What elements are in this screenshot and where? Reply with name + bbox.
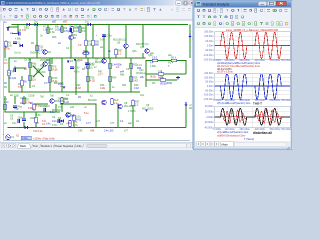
transistor Q11b xyxy=(145,49,150,54)
wire xyxy=(21,76,23,80)
svg-text:9.9p: 9.9p xyxy=(100,39,105,42)
transistor arrow QW xyxy=(145,110,148,113)
wire xyxy=(92,25,94,41)
wire xyxy=(8,58,10,70)
page border xyxy=(4,22,191,141)
svg-text:1m: 1m xyxy=(4,62,7,65)
transistor Q4 xyxy=(50,99,65,104)
capacitor C7 xyxy=(70,25,80,31)
capacitor C3 xyxy=(18,29,22,35)
svg-text:470n: 470n xyxy=(74,71,80,74)
wire left loop xyxy=(145,61,147,88)
junction xyxy=(109,57,110,58)
svg-text:560.000u: 560.000u xyxy=(270,59,281,62)
resistor R22 xyxy=(49,77,58,83)
svg-text:Power Supplies: Power Supplies xyxy=(55,144,74,148)
junction mid rail xyxy=(135,57,136,58)
svg-text:4.70u: 4.70u xyxy=(4,48,11,51)
wire xyxy=(69,127,71,128)
wire xyxy=(75,60,77,95)
svg-text:a44: a44 xyxy=(70,106,75,109)
wire xyxy=(49,58,51,92)
resistor R0T xyxy=(132,100,140,106)
resistor R2b xyxy=(4,104,6,110)
wire xyxy=(158,60,171,62)
svg-text:-80.00m: -80.00m xyxy=(205,89,214,92)
junction xyxy=(75,72,76,73)
svg-text:1.88u: 1.88u xyxy=(150,65,157,68)
junction x37 xyxy=(36,43,37,44)
wire xyxy=(23,96,25,104)
transistor Q5 xyxy=(102,100,107,105)
svg-text:1.1k: 1.1k xyxy=(39,48,44,51)
diode E3b xyxy=(67,61,70,64)
junction top rail xyxy=(30,24,31,25)
svg-text:+88: +88 xyxy=(90,130,95,133)
wire drop xyxy=(79,25,81,34)
capacitor C6 xyxy=(44,105,48,111)
resistor R23 xyxy=(87,63,95,69)
svg-text:0.000u: 0.000u xyxy=(206,116,214,119)
wire xyxy=(177,60,186,62)
svg-text:(PinBou): (PinBou) xyxy=(136,72,146,75)
diode D4 xyxy=(87,23,90,26)
capacitor C2 xyxy=(14,65,17,71)
junction top rail xyxy=(85,24,86,25)
wire xyxy=(117,104,119,110)
wire diag1 xyxy=(33,66,44,77)
svg-text:(R20): (R20) xyxy=(166,82,172,85)
svg-text:Main: Main xyxy=(20,144,27,148)
capacitor C4a xyxy=(102,35,112,38)
svg-text:VL2k: VL2k xyxy=(52,68,58,71)
svg-text:+12Vdc +2Vac 1kHz: +12Vdc +2Vac 1kHz xyxy=(33,137,55,140)
resistor R32 xyxy=(171,57,177,62)
transistor Q3 xyxy=(43,62,48,67)
antenna input xyxy=(7,27,10,31)
capacitor C1 xyxy=(13,42,21,45)
svg-text:Ca 1m: Ca 1m xyxy=(24,59,31,62)
wire lower-left rail xyxy=(9,91,60,93)
resistor R41 xyxy=(23,98,33,104)
junction bottom rail xyxy=(103,127,104,128)
transistor T2 xyxy=(66,113,75,118)
svg-text:X10a: X10a xyxy=(22,137,28,140)
svg-text:0.7k: 0.7k xyxy=(73,124,78,127)
junction xyxy=(87,72,88,73)
resistor R78 xyxy=(83,49,89,54)
junction top rail xyxy=(52,24,53,25)
resistor R31 xyxy=(152,57,158,62)
svg-text:4.302C: 4.302C xyxy=(128,110,136,113)
wire xyxy=(17,25,19,35)
svg-text:7R: 7R xyxy=(11,71,14,74)
svg-text:BB0.29C: BB0.29C xyxy=(36,71,46,74)
junction xyxy=(89,103,90,104)
junction top rail xyxy=(61,24,62,25)
junction top rail xyxy=(100,24,101,25)
junction bottom rail xyxy=(43,127,44,128)
wire xyxy=(35,123,37,128)
junction top rail xyxy=(17,24,18,25)
svg-text:1R: 1R xyxy=(73,37,76,40)
junction xyxy=(109,91,110,92)
junction bottom rail xyxy=(142,127,143,128)
svg-text:1/2W: 1/2W xyxy=(55,29,61,32)
capacitor Ck2 xyxy=(85,63,95,66)
junction xyxy=(49,84,50,85)
svg-text:700.000u: 700.000u xyxy=(281,99,292,102)
wire xyxy=(164,73,186,75)
wire xyxy=(85,25,87,41)
svg-text:a2u: a2u xyxy=(100,46,105,49)
junction xyxy=(29,91,30,92)
svg-text:Cin 1n: Cin 1n xyxy=(14,52,22,55)
wire xyxy=(115,55,117,58)
svg-text:4.0Z: 4.0Z xyxy=(76,87,81,90)
junction bottom rail xyxy=(91,127,92,128)
wire lower mid rail xyxy=(60,91,140,93)
svg-text:110: 110 xyxy=(32,78,36,81)
svg-text:0.77: 0.77 xyxy=(98,74,103,77)
svg-text:40.000u: 40.000u xyxy=(205,105,214,108)
wire xyxy=(166,79,177,81)
resistor R94 xyxy=(35,117,37,123)
junction xyxy=(109,72,110,73)
ground G1 xyxy=(176,76,180,79)
svg-text:1.8k: 1.8k xyxy=(43,29,48,32)
capacitor C9 xyxy=(58,119,60,123)
junction xyxy=(87,91,88,92)
resistor R34 xyxy=(160,76,166,85)
transistor Q6 xyxy=(118,104,123,109)
transistor Q2 xyxy=(43,50,52,55)
junction mid rail xyxy=(56,57,57,58)
junction xyxy=(21,91,22,92)
svg-text:X.D: X.D xyxy=(22,29,26,32)
svg-text:v(diff)+0.5m(vector)-2mv: v(diff)+0.5m(vector)-2mv xyxy=(217,133,246,137)
svg-text:Units: Units xyxy=(76,144,83,148)
wire xyxy=(85,46,87,58)
svg-text:C2GB: C2GB xyxy=(28,95,35,98)
wire right loop xyxy=(185,61,187,75)
wire xyxy=(8,76,10,92)
wire xyxy=(14,96,16,104)
wire mid rail xyxy=(9,57,60,59)
junction mid rail xyxy=(103,57,104,58)
svg-text:R0.4: R0.4 xyxy=(171,57,177,60)
svg-text:160.00m: 160.00m xyxy=(204,76,213,79)
svg-text:4.2E: 4.2E xyxy=(90,79,95,82)
svg-text:MJL1302C: MJL1302C xyxy=(142,108,154,111)
svg-text:Q11: Q11 xyxy=(140,46,145,49)
resistor R67 xyxy=(115,49,123,55)
svg-text:a0p: a0p xyxy=(128,122,133,125)
svg-text:180.00m: 180.00m xyxy=(204,31,213,34)
resistor R1 xyxy=(5,41,13,47)
junction xyxy=(43,91,44,92)
svg-text:BD139C: BD139C xyxy=(52,109,61,112)
wire xyxy=(73,121,75,128)
junction xyxy=(23,111,24,112)
resistor R11 xyxy=(36,45,45,51)
wire xyxy=(109,58,111,92)
junction xyxy=(185,60,186,61)
svg-text:distortian all: distortian all xyxy=(253,131,272,135)
junction xyxy=(75,57,76,58)
wire left xyxy=(4,45,6,58)
resistor R24 xyxy=(109,63,123,69)
wire xyxy=(103,34,105,44)
wire drop x37 xyxy=(36,25,38,59)
junction top rail xyxy=(125,24,126,25)
wire x62 xyxy=(61,58,63,92)
junction xyxy=(49,72,50,73)
junction xyxy=(43,111,44,112)
junction mid rail xyxy=(125,57,126,58)
junction bottom rail xyxy=(31,127,32,128)
svg-text:Text: Text xyxy=(33,144,38,148)
resistor R05 xyxy=(61,98,70,104)
wire to C3 xyxy=(12,33,18,35)
svg-text:0.4u 100: 0.4u 100 xyxy=(104,130,114,133)
svg-text:0.4Z: 0.4Z xyxy=(134,87,139,90)
svg-text:-120.00m: -120.00m xyxy=(203,54,213,57)
svg-text:6.9kg: 6.9kg xyxy=(28,107,35,110)
svg-text:a77: a77 xyxy=(124,130,129,133)
resistor R81 xyxy=(21,80,28,86)
junction top rail xyxy=(79,24,80,25)
wire xyxy=(103,44,105,58)
wire xyxy=(5,111,60,113)
svg-text:-180.00m: -180.00m xyxy=(203,59,213,62)
svg-text:Transient Analysis: Transient Analysis xyxy=(203,2,230,6)
svg-text:4R: 4R xyxy=(189,107,192,110)
svg-text:R24: R24 xyxy=(112,77,117,80)
svg-text:0k 0u: 0k 0u xyxy=(150,76,157,79)
svg-text:C0u: C0u xyxy=(12,122,17,125)
diode D3 xyxy=(34,23,37,26)
svg-text:0.4u: 0.4u xyxy=(46,123,51,126)
junction bottom rail xyxy=(115,127,116,128)
svg-text:2N3904C: 2N3904C xyxy=(40,105,50,108)
svg-text:R0b: R0b xyxy=(52,36,57,39)
junction xyxy=(145,79,146,80)
node OUT label xyxy=(21,136,31,139)
resistor R7b xyxy=(69,121,71,127)
svg-text:a70n: a70n xyxy=(84,67,90,70)
junction top rail xyxy=(57,24,58,25)
wire xyxy=(35,112,37,117)
svg-text:a00: a00 xyxy=(63,20,68,23)
capacitor C4 xyxy=(13,106,22,109)
resistor R26 xyxy=(87,76,96,82)
resistor R52 xyxy=(111,99,119,105)
wire input xyxy=(8,26,18,28)
svg-text:a77: a77 xyxy=(96,120,101,123)
svg-text:Q4b: Q4b xyxy=(132,50,137,53)
svg-text:C3.0: C3.0 xyxy=(152,57,158,60)
wire xyxy=(132,106,134,128)
junction top rail xyxy=(11,24,12,25)
resistor R6 xyxy=(29,75,37,81)
wire mid rail right xyxy=(60,57,145,59)
junction xyxy=(75,91,76,92)
svg-text:0.77: 0.77 xyxy=(44,82,49,85)
junction xyxy=(145,73,146,74)
source V1 xyxy=(6,135,15,140)
resistor R25 xyxy=(130,63,138,69)
resistor R7 xyxy=(47,28,56,34)
svg-text:0.00m: 0.00m xyxy=(207,85,214,88)
junction xyxy=(92,57,93,58)
junction xyxy=(87,57,88,58)
junction top rail xyxy=(92,24,93,25)
transistor Q9a xyxy=(124,44,129,49)
wire right rail xyxy=(189,25,191,59)
resistor R71 xyxy=(71,27,79,33)
wire xyxy=(70,40,72,58)
wire x62 low xyxy=(61,104,63,112)
capacitor Ck0 xyxy=(70,67,80,70)
svg-text:-60.00m: -60.00m xyxy=(205,49,214,52)
svg-text:BD140C: BD140C xyxy=(88,99,97,102)
junction bottom rail xyxy=(67,127,68,128)
svg-text:Main: Main xyxy=(222,143,229,147)
svg-text:560.000u: 560.000u xyxy=(270,99,281,102)
diode D9 xyxy=(189,34,192,39)
junction bottom rail xyxy=(55,127,56,128)
svg-text:R6g: R6g xyxy=(14,108,19,111)
svg-text:R/L: R/L xyxy=(160,76,164,79)
transistor Q10 xyxy=(69,35,73,39)
junction mid rail xyxy=(85,57,86,58)
junction xyxy=(130,91,131,92)
diode D6 xyxy=(60,119,64,126)
svg-text:-160.00m: -160.00m xyxy=(203,94,213,97)
diode D2 xyxy=(26,23,30,30)
junction top rail xyxy=(47,24,48,25)
junction bottom rail xyxy=(7,127,8,128)
wire drop xyxy=(47,25,49,35)
svg-text:880: 880 xyxy=(95,43,100,46)
junction top rail xyxy=(43,24,44,25)
svg-text:C99: C99 xyxy=(78,130,83,133)
resistor R82 xyxy=(8,70,15,76)
wire xyxy=(125,25,127,44)
wire xyxy=(92,46,94,58)
junction xyxy=(65,103,66,104)
wire xyxy=(146,60,152,62)
resistor R51 xyxy=(73,115,82,121)
svg-text:a0u: a0u xyxy=(150,52,155,55)
svg-text:0.4Z: 0.4Z xyxy=(133,79,138,82)
junction top rail xyxy=(142,24,143,25)
resistor R42 xyxy=(33,104,42,110)
resistor R27 xyxy=(109,76,117,82)
svg-text:T (Secs): T (Secs) xyxy=(244,137,254,141)
svg-text:C77: C77 xyxy=(110,122,115,125)
transistor Q7b xyxy=(102,59,107,64)
junction top rail xyxy=(36,24,37,25)
wire xyxy=(34,103,48,105)
junction mid rail xyxy=(144,57,145,58)
diode D8 xyxy=(185,102,188,107)
wire xyxy=(23,122,25,128)
junction bottom rail xyxy=(127,127,128,128)
wire xyxy=(23,112,25,118)
svg-text:Ta0: Ta0 xyxy=(40,96,45,99)
svg-text:a00: a00 xyxy=(52,21,57,24)
junction top rail xyxy=(108,24,109,25)
wire xyxy=(87,58,89,92)
junction xyxy=(130,72,131,73)
junction xyxy=(117,103,118,104)
diode D1 xyxy=(19,44,22,47)
svg-text:v(5,4)-4dB+muP(vector) 1ms: v(5,4)-4dB+muP(vector) 1ms xyxy=(217,101,251,105)
wire xyxy=(21,86,23,92)
svg-text:4-40: 4-40 xyxy=(64,101,69,104)
wire xyxy=(51,58,53,64)
svg-text:C-k0: C-k0 xyxy=(74,67,80,70)
wire xyxy=(130,58,132,92)
junction top rail xyxy=(65,24,66,25)
svg-text:0u2: 0u2 xyxy=(140,94,145,97)
diode D10 xyxy=(63,87,66,90)
junction bottom rail xyxy=(19,127,20,128)
wire bottom rail V- xyxy=(8,127,186,129)
svg-text:80.00m: 80.00m xyxy=(206,81,214,84)
resistor R77 xyxy=(85,40,93,46)
resistor R21 xyxy=(49,65,58,71)
capacitor C8 xyxy=(18,116,24,122)
svg-text:470p: 470p xyxy=(64,30,70,33)
svg-text:4.2E: 4.2E xyxy=(100,87,105,90)
svg-text:C:\MC10\DATA\Perantih\5088-L2_: C:\MC10\DATA\Perantih\5088-L2_tico\board… xyxy=(6,1,100,5)
wire xyxy=(71,33,73,35)
resistor R61 xyxy=(92,40,100,46)
resistor R28 xyxy=(130,76,139,82)
svg-text:THD-T: THD-T xyxy=(253,101,262,105)
junction top rail xyxy=(71,24,72,25)
wire xyxy=(146,73,158,75)
wire xyxy=(4,96,6,112)
svg-text:700.000u: 700.000u xyxy=(281,128,292,131)
svg-text:240.00m: 240.00m xyxy=(204,72,213,75)
svg-text:0.8k: 0.8k xyxy=(82,30,87,33)
svg-text:X.D 0.4u: X.D 0.4u xyxy=(33,130,43,133)
svg-text:mba: mba xyxy=(83,49,88,52)
svg-text:Ta0: Ta0 xyxy=(50,95,55,98)
wire xyxy=(146,79,160,81)
svg-text:470n: 470n xyxy=(52,124,58,127)
wire top rail V+ xyxy=(12,24,188,26)
junction xyxy=(95,103,96,104)
svg-text:a0u: a0u xyxy=(168,54,173,57)
svg-text:20.000u: 20.000u xyxy=(205,110,214,113)
junction mid rail xyxy=(20,57,21,58)
svg-text:T10: T10 xyxy=(46,62,51,65)
junction mid rail xyxy=(8,57,9,58)
svg-text:120.00m: 120.00m xyxy=(204,35,213,38)
wire drop xyxy=(61,25,63,34)
wire xyxy=(108,25,110,59)
junction mid rail xyxy=(115,57,116,58)
svg-text:-240.00m: -240.00m xyxy=(203,98,213,101)
junction mid rail xyxy=(44,57,45,58)
wire xyxy=(117,110,119,128)
junction mid rail xyxy=(32,57,33,58)
